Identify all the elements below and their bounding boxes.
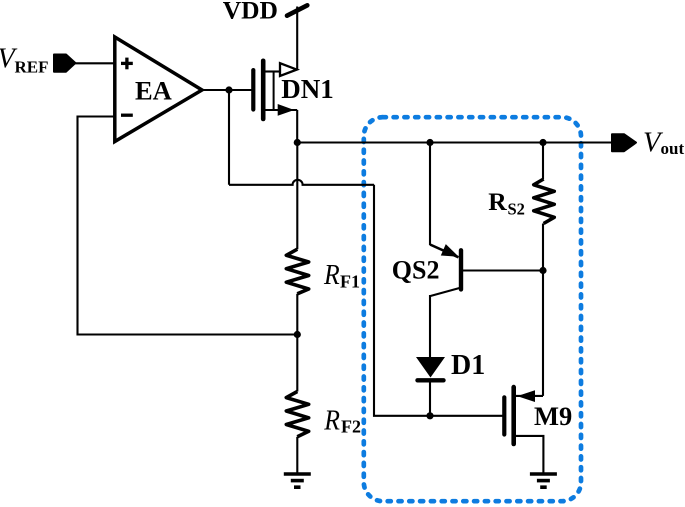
svg-text:DN1: DN1	[281, 74, 334, 104]
svg-text:F2: F2	[341, 417, 361, 437]
svg-text:M9: M9	[534, 401, 572, 431]
svg-text:S2: S2	[508, 200, 525, 219]
svg-text:F1: F1	[340, 272, 360, 292]
svg-text:EA: EA	[135, 76, 172, 106]
svg-text:R: R	[488, 187, 507, 216]
svg-text:R: R	[323, 405, 340, 437]
svg-text:D1: D1	[451, 350, 485, 381]
svg-text:VDD: VDD	[223, 0, 278, 25]
svg-text:out: out	[661, 139, 685, 158]
svg-text:REF: REF	[15, 58, 49, 77]
svg-text:QS2: QS2	[392, 256, 440, 285]
svg-text:R: R	[323, 259, 340, 291]
